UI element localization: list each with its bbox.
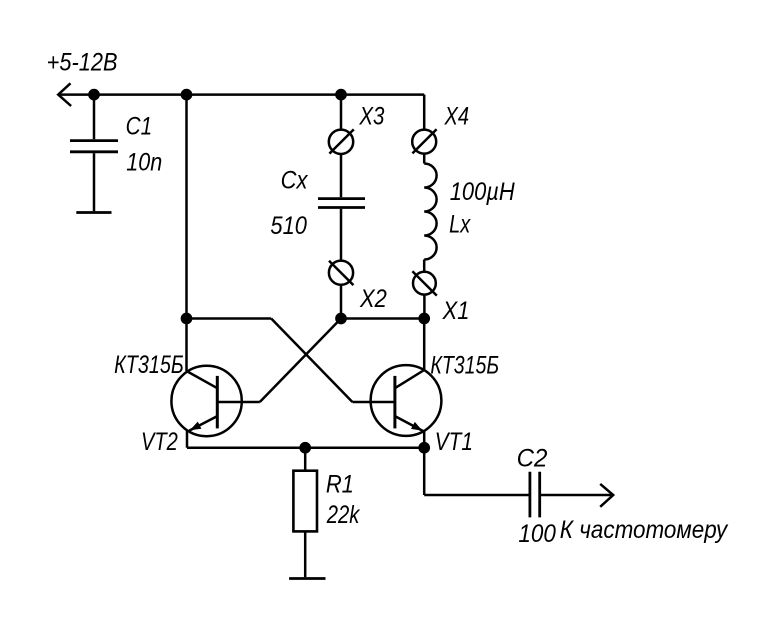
node dot: rail/C1	[88, 89, 100, 101]
wire: middle vertical (rail to node)	[185, 95, 188, 319]
svg-text:+5-12В: +5-12В	[47, 48, 118, 76]
wire: X3 to Cx	[340, 154, 343, 197]
svg-text:X3: X3	[359, 101, 385, 129]
svg-text:X2: X2	[359, 285, 387, 313]
transistor VT2 collector	[187, 371, 218, 388]
svg-text:VT2: VT2	[141, 427, 178, 456]
terminal X2	[329, 261, 353, 285]
transistor VT1 base bar	[393, 376, 396, 429]
wire: X1 to node B	[423, 295, 426, 319]
node dot: node B left	[335, 313, 347, 325]
svg-text:100µH: 100µH	[450, 178, 515, 206]
transistor VT1 body	[371, 365, 442, 436]
ground (R1)	[289, 577, 325, 580]
capacitor C2	[530, 472, 540, 518]
inductor Lx coil	[424, 164, 436, 260]
terminal X3	[329, 130, 353, 154]
svg-text:Lx: Lx	[449, 210, 471, 238]
ground (C1)	[76, 211, 111, 214]
transistor VT2 emitter	[189, 416, 217, 431]
wire: +V rail	[58, 93, 424, 96]
wire: VT2 collector lead	[185, 319, 188, 372]
wire: R1 to ground	[304, 531, 307, 577]
svg-text:C1: C1	[126, 112, 153, 140]
wire: output horizontal	[424, 494, 528, 497]
wire: R1 top lead	[304, 448, 307, 471]
svg-text:VT1: VT1	[435, 427, 473, 455]
svg-text:КТ315Б: КТ315Б	[114, 351, 184, 379]
node dot: node B right	[418, 313, 430, 325]
svg-text:КТ315Б: КТ315Б	[430, 351, 499, 379]
transistor VT1 emitter	[395, 416, 423, 431]
resistor R1	[293, 471, 317, 532]
transistor VT1 emitter arrowhead	[411, 422, 423, 431]
transistor VT1 collector	[395, 370, 424, 388]
capacitor C1	[70, 141, 118, 152]
terminal X4	[412, 130, 436, 154]
wire: X4 branch top	[423, 95, 426, 130]
wire: VT1 base lead	[352, 401, 395, 404]
wire: VT1 collector lead	[423, 319, 426, 371]
wire: VT2 base lead	[217, 401, 259, 404]
wire: C2 to output arrow	[541, 494, 613, 497]
svg-text:К частотомеру: К частотомеру	[560, 516, 729, 544]
node dot: rail/middle	[181, 89, 193, 101]
wire: Cx to X2	[340, 209, 343, 261]
node dot: node A	[181, 313, 193, 325]
svg-text:Cx: Cx	[281, 166, 309, 194]
wire: C1 branch top	[93, 95, 96, 140]
svg-text:10n: 10n	[126, 148, 162, 176]
svg-text:X4: X4	[444, 101, 469, 130]
svg-text:C2: C2	[517, 445, 548, 472]
wire: C1 to ground	[93, 153, 96, 211]
svg-text:R1: R1	[326, 470, 354, 498]
svg-text:510: 510	[270, 212, 307, 240]
wire: diagonal to VT1 base	[271, 319, 352, 403]
wire: X3 branch top	[340, 95, 343, 130]
wire: coil to X1	[423, 260, 426, 272]
power supply arrow	[58, 83, 71, 106]
wire: diagonal to VT2 base	[260, 319, 341, 403]
terminal X1	[413, 272, 436, 295]
node dot: bottom/R1	[299, 442, 311, 454]
transistor VT2 base bar	[216, 376, 219, 429]
wire: node A horizontal	[187, 317, 272, 320]
wire: X4 to coil	[423, 154, 426, 164]
svg-text:22k: 22k	[326, 500, 361, 529]
wire: bottom rail	[187, 446, 424, 449]
output arrow	[600, 484, 613, 507]
transistor VT2 emitter arrowhead	[190, 422, 202, 431]
transistor VT2 body	[171, 366, 241, 436]
node dot: rail/X3	[335, 89, 347, 101]
node dot: bottom/VT1	[418, 442, 430, 454]
wire: node B horizontal	[341, 317, 424, 320]
wire: X2 to node B	[340, 285, 343, 319]
svg-text:X1: X1	[442, 297, 470, 325]
capacitor Cx	[318, 199, 365, 208]
wire: output down	[423, 448, 426, 495]
svg-text:100: 100	[518, 520, 556, 548]
wire: VT2 emitter to bottom	[186, 430, 189, 448]
wire: VT1 emitter to bottom	[423, 431, 426, 448]
